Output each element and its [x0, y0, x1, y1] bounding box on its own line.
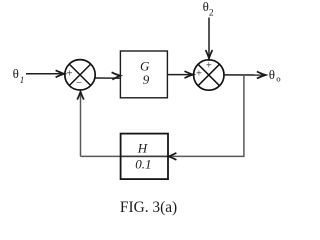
- svg-text:2: 2: [209, 8, 214, 18]
- node theta1 input label: [13, 66, 25, 86]
- wire S2 to output: [224, 74, 265, 76]
- arrowhead into S2: [185, 71, 194, 78]
- svg-text:o: o: [276, 74, 281, 84]
- block G: [120, 51, 167, 98]
- block H: [121, 134, 168, 180]
- wire segment through block H (darker): [121, 155, 168, 157]
- arrowhead down into S2: [206, 50, 213, 59]
- wire takeoff branch down and left (feedback): [81, 75, 244, 156]
- summing junction S1: [65, 60, 95, 90]
- svg-text:+: +: [67, 68, 73, 79]
- svg-text:1: 1: [20, 76, 25, 86]
- svg-text:θ: θ: [203, 0, 209, 14]
- arrowhead up into S1: [77, 92, 84, 100]
- svg-text:+: +: [206, 60, 212, 71]
- arrowhead into S1: [56, 70, 65, 77]
- svg-text:H: H: [137, 140, 148, 155]
- svg-text:0.1: 0.1: [135, 157, 151, 172]
- wire S1 to block G: [95, 77, 120, 79]
- wire theta1 to summing junction S1: [26, 73, 64, 75]
- summing junction S2: [194, 60, 224, 90]
- summing junction S1 cross: [69, 64, 90, 85]
- arrowhead into block G (tilted slightly up): [112, 72, 121, 79]
- node theta2 label: [203, 0, 214, 18]
- svg-text:−: −: [76, 78, 82, 89]
- node theta_o output label: [269, 67, 281, 84]
- svg-text:+: +: [196, 69, 202, 80]
- wire theta2 down to S2: [208, 18, 210, 59]
- wire G to summing junction S2: [168, 74, 194, 76]
- arrowhead into block H right side: [169, 153, 177, 160]
- svg-text:FIG. 3(a): FIG. 3(a): [120, 199, 177, 216]
- summing junction S2 cross: [198, 64, 219, 85]
- wire feedback up into S1: [80, 92, 82, 156]
- svg-text:θ: θ: [269, 67, 275, 82]
- svg-text:θ: θ: [13, 66, 19, 81]
- svg-text:9: 9: [143, 72, 150, 87]
- arrowhead output: [257, 72, 266, 79]
